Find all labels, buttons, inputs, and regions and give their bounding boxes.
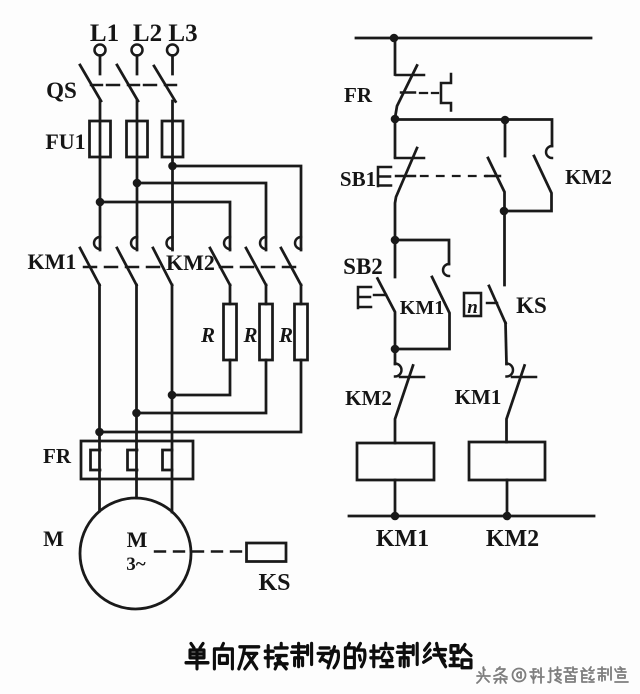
- svg-text:R: R: [242, 323, 257, 347]
- svg-text:M: M: [43, 526, 64, 551]
- svg-text:R: R: [200, 323, 215, 347]
- svg-text:KS: KS: [516, 293, 547, 318]
- svg-text:M: M: [127, 527, 148, 552]
- svg-text:QS: QS: [46, 78, 77, 103]
- svg-text:FR: FR: [43, 444, 72, 468]
- svg-text:L3: L3: [168, 20, 197, 47]
- svg-text:KM1: KM1: [400, 297, 444, 319]
- svg-text:L2: L2: [133, 20, 162, 47]
- svg-text:SB2: SB2: [343, 254, 383, 279]
- svg-text:KM1: KM1: [28, 249, 77, 274]
- svg-text:KM2: KM2: [565, 165, 612, 189]
- svg-text:KS: KS: [258, 570, 290, 596]
- svg-text:KM2: KM2: [345, 386, 392, 410]
- svg-text:R: R: [278, 323, 293, 347]
- svg-text:KM2: KM2: [166, 250, 215, 275]
- svg-text:KM2: KM2: [486, 526, 539, 552]
- svg-text:KM1: KM1: [455, 385, 502, 409]
- svg-text:n: n: [467, 297, 478, 318]
- svg-text:3~: 3~: [126, 554, 146, 575]
- svg-text:L1: L1: [90, 20, 119, 47]
- svg-text:KM1: KM1: [376, 526, 429, 552]
- svg-text:FU1: FU1: [45, 129, 85, 154]
- svg-text:SB1: SB1: [340, 167, 376, 191]
- svg-text:FR: FR: [344, 83, 373, 107]
